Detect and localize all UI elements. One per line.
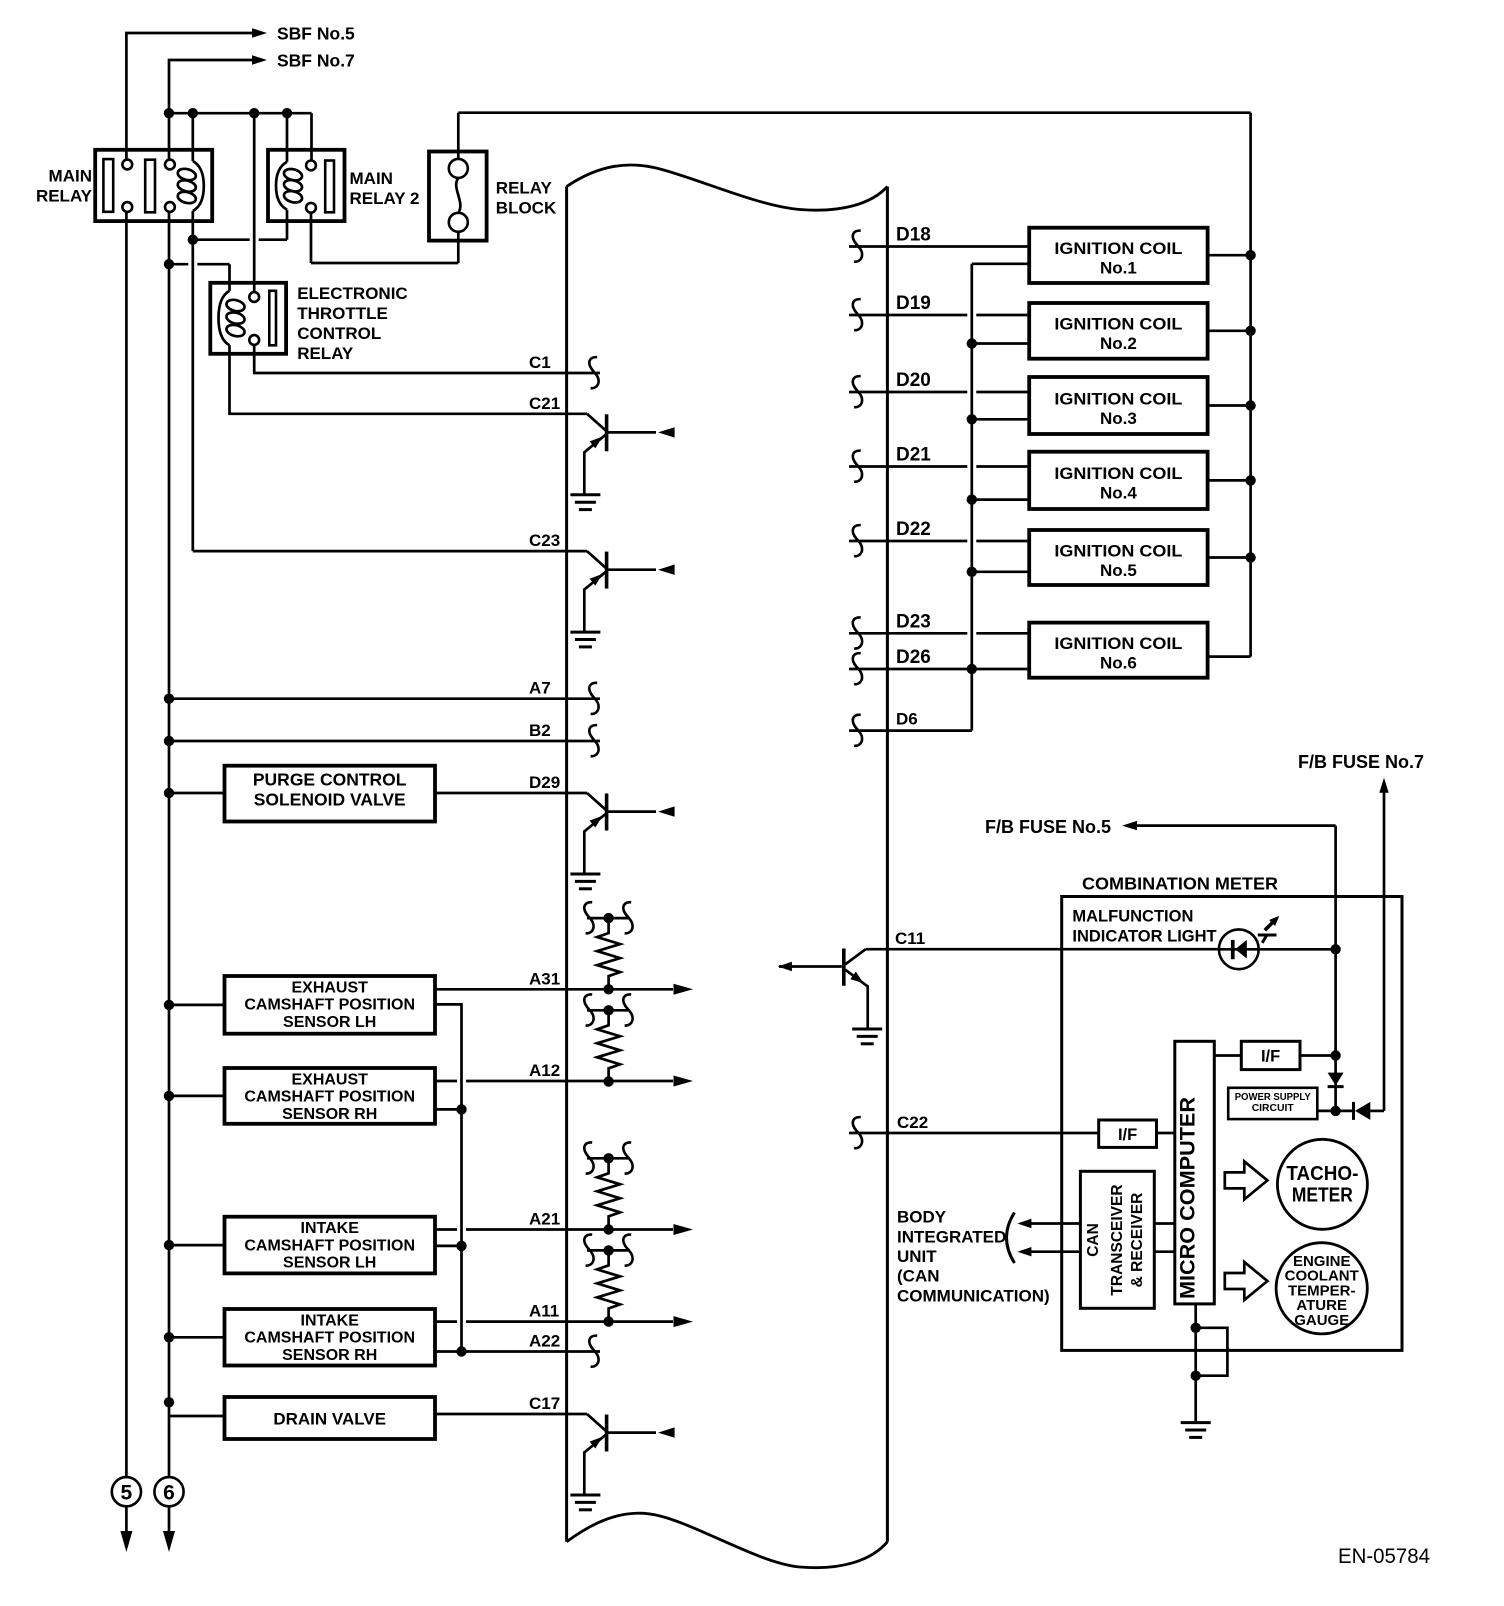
- wire A12 wire (with crossover gaps): [435, 1080, 457, 1083]
- wire micro to I/F1: [1214, 1054, 1241, 1057]
- transistor C11 driver: [779, 949, 1219, 1030]
- arrowhead to SBF No.7: [252, 55, 267, 64]
- node main line / intake LH sensor: [164, 1240, 174, 1250]
- bracket paren to body integrated unit: [1007, 1213, 1015, 1264]
- svg-text:RELAY: RELAY: [36, 187, 93, 206]
- component INTAKE CAMSHAFT POSITION SENSOR LH: [225, 1217, 436, 1274]
- pin terminal MAIN RELAY 2 30: [306, 161, 316, 171]
- connector squiggle A7: [589, 683, 598, 714]
- svg-text:MAIN: MAIN: [49, 167, 92, 186]
- wire to diode D2: [1336, 1110, 1352, 1113]
- svg-text:D29: D29: [529, 773, 560, 792]
- ignition coil No.1 box: [1029, 228, 1207, 283]
- wire C17 wire: [435, 1413, 587, 1416]
- node common bus / coil No.3: [967, 414, 977, 424]
- svg-text:GAUGE: GAUGE: [1294, 1312, 1349, 1329]
- wire power circuit to junction: [1317, 1110, 1335, 1113]
- wire A31 pull-up stub (with crossover gaps): [587, 917, 630, 920]
- svg-text:IGNITION COIL: IGNITION COIL: [1054, 315, 1182, 334]
- node main line / exhaust LH sensor: [164, 1000, 174, 1010]
- svg-text:No.3: No.3: [1100, 409, 1137, 428]
- wire A11 wire (with crossover gaps): [435, 1320, 457, 1323]
- svg-text:& RECEIVER: & RECEIVER: [1129, 1193, 1146, 1288]
- wire I/F1 to supply: [1300, 1054, 1336, 1057]
- wire MAIN RELAY coil feed: [191, 113, 194, 161]
- connector squiggle D23: [853, 617, 862, 648]
- wire micro computer ground line: [1194, 1304, 1197, 1421]
- svg-text:INTEGRATED: INTEGRATED: [897, 1227, 1006, 1246]
- pin terminal MAIN RELAY 87b: [165, 202, 175, 212]
- ground C21 emitter: [570, 495, 600, 510]
- svg-text:IGNITION COIL: IGNITION COIL: [1054, 464, 1182, 483]
- wire coil No.5 supply: [1208, 556, 1251, 559]
- svg-text:SENSOR RH: SENSOR RH: [282, 1347, 377, 1364]
- wire coil junction row (with crossover gaps): [193, 238, 250, 241]
- svg-text:MAIN: MAIN: [350, 169, 393, 188]
- svg-text:BLOCK: BLOCK: [496, 199, 557, 218]
- wire A12 pull-up stub (with crossover gaps): [587, 1009, 630, 1012]
- arrowhead A12 into ECM: [674, 1076, 694, 1087]
- contact blade ETC relay: [269, 291, 276, 346]
- node bus A / MAIN RELAY 2 coil: [282, 108, 292, 118]
- svg-text:RELAY: RELAY: [297, 344, 354, 363]
- inductor coil ETC relay coil: [219, 291, 246, 346]
- POWER SUPPLY CIRCUIT box: [1228, 1088, 1317, 1119]
- wire ETC coil feed row (with crossover gaps): [169, 263, 188, 266]
- wire CAN bus out 2: [1031, 1250, 1080, 1253]
- node bus A / ETC relay contact: [249, 108, 259, 118]
- arrowhead C21 emitter arrow: [590, 433, 606, 448]
- node A21 / resistor: [603, 1224, 613, 1234]
- ignition coil No.3 box: [1029, 377, 1207, 434]
- ignition coil No.6 box: [1029, 623, 1207, 678]
- node A11 stub: [603, 1245, 613, 1255]
- svg-text:COMBINATION METER: COMBINATION METER: [1082, 874, 1278, 894]
- svg-text:COMMUNICATION): COMMUNICATION): [897, 1286, 1050, 1305]
- wire D18 wire (with crossover gaps): [849, 245, 1029, 248]
- node supply bus / coil No.2: [1245, 326, 1255, 336]
- wire D26 wire (with crossover gaps): [849, 668, 1029, 671]
- svg-text:6: 6: [163, 1481, 175, 1504]
- svg-text:BODY: BODY: [897, 1208, 947, 1227]
- svg-text:No.4: No.4: [1100, 484, 1137, 503]
- svg-text:MICRO COMPUTER: MICRO COMPUTER: [1177, 1097, 1200, 1299]
- connector squiggle D21: [853, 451, 862, 482]
- connector squiggle stub A12 right: [623, 994, 632, 1025]
- wire A31 wire: [435, 988, 673, 991]
- wire A21 wire (with crossover gaps): [435, 1228, 457, 1231]
- wire SBF No.7 feed: [169, 60, 252, 160]
- relay MAIN RELAY 2 body: [268, 150, 345, 221]
- connector squiggle D26: [853, 653, 862, 684]
- svg-text:INTAKE: INTAKE: [301, 1312, 360, 1329]
- wire main line to connector 5: [125, 212, 128, 1477]
- MICRO COMPUTER box: [1175, 1041, 1215, 1304]
- ECM connector body outline (torn-edge box): [567, 165, 888, 210]
- svg-text:D26: D26: [896, 647, 931, 668]
- svg-text:A31: A31: [529, 969, 560, 988]
- wire MIL supply line: [1334, 826, 1337, 1111]
- node common bus / coil No.5: [967, 567, 977, 577]
- node bus A / MAIN RELAY coil: [188, 108, 198, 118]
- wire main line to connector 6: [168, 212, 171, 1477]
- svg-text:No.1: No.1: [1100, 259, 1137, 278]
- svg-text:SENSOR RH: SENSOR RH: [282, 1106, 377, 1123]
- wire intake LH to common: [435, 1245, 462, 1248]
- svg-text:CAN: CAN: [1085, 1223, 1102, 1257]
- wire coil No.2 supply: [1208, 329, 1251, 332]
- node main line / purge valve: [164, 788, 174, 798]
- arrowhead CAN to body unit 2: [1017, 1247, 1031, 1256]
- node common bus / D26: [967, 664, 977, 674]
- svg-text:No.2: No.2: [1100, 334, 1137, 353]
- node main line / B2: [164, 736, 174, 746]
- svg-text:CIRCUIT: CIRCUIT: [1252, 1102, 1295, 1114]
- svg-text:DRAIN VALVE: DRAIN VALVE: [273, 1410, 386, 1429]
- wire C1 wire: [254, 345, 600, 373]
- svg-text:TRANSCEIVER: TRANSCEIVER: [1109, 1184, 1126, 1295]
- svg-text:CAMSHAFT POSITION: CAMSHAFT POSITION: [244, 1237, 415, 1254]
- wire MAIN RELAY coil to junction: [191, 211, 194, 240]
- svg-text:SBF No.7: SBF No.7: [277, 51, 355, 71]
- connector squiggle D22: [853, 525, 862, 556]
- node supply / I/F1: [1330, 1050, 1340, 1060]
- wire coil No.5 trigger: [972, 570, 1029, 573]
- svg-text:No.6: No.6: [1100, 653, 1137, 672]
- svg-text:MALFUNCTION: MALFUNCTION: [1072, 907, 1193, 925]
- wire coil No.1 trigger: [972, 262, 1029, 265]
- wire A21 pull-up stub (with crossover gaps): [587, 1157, 630, 1160]
- component PURGE CONTROL SOLENOID VALVE: [225, 766, 436, 822]
- connector squiggle D18: [853, 231, 862, 262]
- svg-text:D19: D19: [896, 293, 931, 314]
- node main line / A7: [164, 694, 174, 704]
- arrowhead to F/B FUSE No.7: [1379, 778, 1388, 793]
- svg-text:A11: A11: [529, 1302, 559, 1321]
- wire connector 6 tail: [168, 1506, 171, 1546]
- svg-text:IGNITION COIL: IGNITION COIL: [1054, 634, 1182, 653]
- node A11 / resistor: [603, 1316, 613, 1326]
- svg-text:D20: D20: [896, 370, 931, 391]
- pin terminal MAIN RELAY 30: [122, 160, 132, 170]
- node circled connector 5: [112, 1477, 141, 1506]
- connector squiggle A22: [589, 1336, 598, 1367]
- inductor coil MAIN RELAY 2 coil: [276, 162, 303, 210]
- arrowhead C17 emitter arrow: [590, 1433, 606, 1448]
- wire intake RH supply: [169, 1336, 225, 1339]
- svg-text:B2: B2: [529, 721, 551, 740]
- contact blade MAIN RELAY 1: [103, 159, 113, 212]
- wire purge valve supply: [169, 792, 225, 795]
- indicator block arrow to coolant gauge: [1225, 1262, 1268, 1300]
- fuse element RELAY BLOCK: [456, 178, 460, 213]
- wire D6 wire: [849, 729, 972, 732]
- arrowhead A31 into ECM: [674, 984, 694, 995]
- svg-text:D23: D23: [896, 611, 931, 632]
- connector squiggle stub A21 right: [623, 1142, 632, 1173]
- ground C17 emitter: [570, 1495, 600, 1510]
- node A12 stub: [603, 1005, 613, 1015]
- arrowhead C11 base arrow: [778, 962, 792, 972]
- wire B2 wire: [169, 740, 600, 743]
- wire D19 wire (with crossover gaps): [849, 314, 967, 317]
- arrowhead C11 emitter arrow: [850, 972, 866, 987]
- engine coolant temperature gauge circle: [1276, 1243, 1367, 1334]
- wire CAN bus out 1: [1031, 1222, 1080, 1225]
- light emission arrow on LED: [1258, 921, 1277, 943]
- svg-text:THROTTLE: THROTTLE: [297, 304, 388, 323]
- svg-text:D6: D6: [896, 710, 918, 729]
- component INTAKE CAMSHAFT POSITION SENSOR RH: [225, 1309, 436, 1366]
- diode D2 (from F/B fuse No.7, pointing left): [1354, 1102, 1371, 1120]
- svg-text:METER: METER: [1292, 1185, 1353, 1207]
- arrowhead C17 collector arrow: [658, 1427, 675, 1437]
- svg-text:F/B FUSE No.7: F/B FUSE No.7: [1298, 752, 1424, 772]
- svg-text:EN-05784: EN-05784: [1338, 1545, 1430, 1568]
- LED malfunction indicator light: [1219, 929, 1259, 969]
- arrowhead D29 emitter arrow: [590, 812, 606, 827]
- svg-text:C23: C23: [529, 531, 560, 550]
- arrowhead D29 collector arrow: [658, 806, 675, 816]
- resistor A31 pull-up: [597, 918, 620, 989]
- ignition coil No.2 box: [1029, 303, 1207, 359]
- node circled connector 6: [154, 1477, 183, 1506]
- wire bus A drop to MAIN RELAY 2 contact: [310, 113, 313, 160]
- arrowhead C23 emitter arrow: [590, 570, 606, 585]
- ground C11 emitter: [852, 1029, 882, 1044]
- connector squiggle stub A21 left: [584, 1142, 593, 1173]
- arrowhead connector 5 down: [120, 1531, 132, 1552]
- wire drain valve supply: [169, 1415, 225, 1418]
- node A12 / resistor: [603, 1076, 613, 1086]
- svg-text:F/B FUSE No.5: F/B FUSE No.5: [985, 817, 1111, 837]
- node common bus / coil No.2: [967, 338, 977, 348]
- svg-text:RELAY 2: RELAY 2: [350, 189, 420, 208]
- connector squiggle stub A31 left: [584, 902, 593, 933]
- wire CAN to micro 1: [1154, 1222, 1175, 1225]
- connector squiggle D20: [853, 376, 862, 407]
- svg-text:RELAY: RELAY: [496, 179, 553, 198]
- relay ELECTRONIC THROTTLE CONTROL RELAY body: [210, 283, 286, 354]
- ignition coil No.4 box: [1029, 452, 1207, 509]
- svg-text:CONTROL: CONTROL: [297, 324, 381, 343]
- wire MAIN RELAY 2 coil to junction row: [286, 210, 289, 240]
- node supply bus / coil No.1: [1245, 250, 1255, 260]
- wire coil No.3 trigger: [972, 418, 1029, 421]
- svg-text:TACHO-: TACHO-: [1286, 1163, 1358, 1185]
- wire power bus segment B: [458, 111, 1250, 114]
- svg-text:D21: D21: [896, 445, 931, 466]
- node supply / power circuit: [1330, 1106, 1340, 1116]
- wire ignition coil supply bus: [1249, 113, 1252, 657]
- node supply bus / coil No.3: [1245, 400, 1255, 410]
- wire ETC relay contact feed: [253, 113, 256, 292]
- svg-text:A7: A7: [529, 679, 551, 698]
- svg-text:C1: C1: [529, 353, 551, 372]
- svg-text:A22: A22: [529, 1332, 560, 1351]
- pin terminal RELAY BLOCK bottom: [449, 213, 468, 232]
- svg-text:C17: C17: [529, 1394, 560, 1413]
- pin terminal MAIN RELAY 87: [122, 202, 132, 212]
- node ground jog bottom: [1191, 1371, 1201, 1381]
- wire C21 wire: [230, 345, 588, 414]
- transistor C23 driver: [584, 551, 656, 632]
- wire ignition coil common bus: [970, 264, 973, 731]
- node supply bus / coil No.4: [1245, 475, 1255, 485]
- diode D1 (MIL supply, pointing down): [1328, 1073, 1344, 1087]
- svg-text:IGNITION COIL: IGNITION COIL: [1054, 239, 1182, 258]
- node common / A22: [456, 1346, 466, 1356]
- connector squiggle stub A12 left: [584, 994, 593, 1025]
- svg-text:SBF No.5: SBF No.5: [277, 24, 355, 44]
- svg-text:I/F: I/F: [1118, 1126, 1137, 1144]
- svg-text:A21: A21: [529, 1210, 560, 1229]
- arrowhead to F/B FUSE No.5: [1122, 821, 1137, 830]
- connector squiggle stub A31 right: [623, 902, 632, 933]
- connector squiggle stub A11 right: [623, 1235, 632, 1266]
- svg-text:C21: C21: [529, 394, 560, 413]
- wire intake LH supply: [169, 1244, 225, 1247]
- arrowhead LED light arrow: [1269, 913, 1282, 926]
- COMBINATION METER body: [1062, 897, 1402, 1351]
- svg-text:EXHAUST: EXHAUST: [291, 1071, 368, 1088]
- svg-text:IGNITION COIL: IGNITION COIL: [1054, 389, 1182, 408]
- wire coil No.6 supply: [1208, 655, 1251, 658]
- node main line / intake RH sensor: [164, 1332, 174, 1342]
- wire A22 wire: [435, 1350, 600, 1353]
- node common / exhaust RH: [456, 1104, 466, 1114]
- wire coil No.1 supply: [1208, 254, 1251, 257]
- component EXHAUST CAMSHAFT POSITION SENSOR LH: [225, 976, 436, 1034]
- wire RELAY BLOCK to bus B: [457, 113, 460, 159]
- svg-text:SOLENOID VALVE: SOLENOID VALVE: [254, 790, 406, 810]
- wire connector 5 tail: [125, 1506, 128, 1546]
- component DRAIN VALVE: [225, 1397, 436, 1439]
- wire coil No.3 supply: [1208, 404, 1251, 407]
- inductor coil MAIN RELAY coil: [177, 161, 204, 211]
- resistor A12 pull-up: [597, 1010, 620, 1081]
- wire exhaust LH supply: [169, 1004, 225, 1007]
- node ground jog top: [1191, 1323, 1201, 1333]
- wire MAIN RELAY 2 contact to relay block: [310, 213, 313, 263]
- wire power bus segment A: [169, 112, 312, 115]
- svg-text:D18: D18: [896, 225, 931, 246]
- arrowhead connector 6 down: [163, 1531, 175, 1552]
- svg-text:CAMSHAFT POSITION: CAMSHAFT POSITION: [244, 1330, 415, 1347]
- relay block body: [429, 152, 487, 241]
- pin terminal RELAY BLOCK top: [449, 159, 468, 178]
- wire CAN to micro 2: [1154, 1250, 1175, 1253]
- wire coil No.4 supply: [1208, 479, 1251, 482]
- svg-text:INDICATOR LIGHT: INDICATOR LIGHT: [1072, 928, 1216, 946]
- node main line / ETC coil feed: [164, 259, 174, 269]
- svg-text:UNIT: UNIT: [897, 1247, 937, 1266]
- svg-text:A12: A12: [529, 1061, 560, 1080]
- svg-text:(CAN: (CAN: [897, 1267, 940, 1286]
- wire F/B FUSE No.5 feed: [1130, 824, 1336, 827]
- svg-text:ELECTRONIC: ELECTRONIC: [297, 284, 408, 303]
- ignition coil No.5 box: [1029, 530, 1207, 585]
- pin terminal MAIN RELAY 2 87: [306, 203, 316, 213]
- node A31 / resistor: [603, 984, 613, 994]
- arrowhead CAN to body unit 1: [1017, 1219, 1031, 1228]
- node bus A / SBF7 line: [164, 108, 174, 118]
- svg-text:IGNITION COIL: IGNITION COIL: [1054, 541, 1182, 560]
- svg-text:EXHAUST: EXHAUST: [291, 979, 368, 996]
- wire D23 wire (with crossover gaps): [849, 632, 967, 635]
- node supply bus / coil No.5: [1245, 552, 1255, 562]
- svg-text:SENSOR LH: SENSOR LH: [283, 1255, 376, 1272]
- wire D21 wire (with crossover gaps): [849, 465, 967, 468]
- svg-text:PURGE CONTROL: PURGE CONTROL: [253, 770, 407, 790]
- wire exhaust RH supply: [169, 1095, 225, 1098]
- connector squiggle C22: [853, 1117, 862, 1148]
- pin terminal MAIN RELAY 30b: [165, 160, 175, 170]
- wire C23 wire: [193, 550, 587, 553]
- svg-text:CAMSHAFT POSITION: CAMSHAFT POSITION: [244, 1089, 415, 1106]
- connector squiggle D19: [853, 299, 862, 330]
- svg-text:D22: D22: [896, 519, 931, 540]
- wire RELAY BLOCK to MAIN RELAY 2: [457, 232, 460, 263]
- arrowhead C23 collector arrow: [658, 565, 675, 575]
- node common / intake LH: [456, 1241, 466, 1251]
- arrowhead A21 into ECM: [674, 1224, 694, 1235]
- resistor A21 pull-up: [597, 1158, 620, 1229]
- svg-text:C22: C22: [897, 1113, 928, 1132]
- contact blade MAIN RELAY 2: [325, 161, 334, 213]
- wire C22 wire: [849, 1132, 1099, 1135]
- wire coil No.4 trigger: [972, 498, 1029, 501]
- wire A7 wire: [169, 697, 600, 700]
- wire to RELAY BLOCK bottom: [311, 262, 458, 265]
- I/F interface box 1: [1241, 1041, 1300, 1069]
- wire F/B FUSE No.7 feed: [1383, 792, 1386, 1111]
- node A31 stub: [603, 913, 613, 923]
- transistor C17 driver: [584, 1414, 656, 1495]
- contact blade MAIN RELAY 2: [145, 160, 155, 213]
- wire D29 wire: [435, 792, 587, 795]
- svg-text:I/F: I/F: [1261, 1048, 1280, 1066]
- node MAIN RELAY coil / C23 line: [188, 235, 198, 245]
- component EXHAUST CAMSHAFT POSITION SENSOR RH: [225, 1068, 436, 1124]
- svg-text:SENSOR LH: SENSOR LH: [283, 1014, 376, 1031]
- wire SBF No.5 feed: [126, 33, 252, 160]
- pin terminal ETC relay 87: [249, 335, 259, 345]
- wire D20 wire (with crossover gaps): [849, 391, 967, 394]
- relay MAIN RELAY body: [95, 150, 212, 221]
- transistor C21 driver: [584, 414, 656, 495]
- pin terminal ETC relay 30: [249, 292, 259, 302]
- svg-text:CAMSHAFT POSITION: CAMSHAFT POSITION: [244, 997, 415, 1014]
- node MIL supply / LED: [1330, 944, 1340, 954]
- CAN TRANSCEIVER &amp; RECEIVER box: [1080, 1171, 1154, 1308]
- svg-text:No.5: No.5: [1100, 561, 1137, 580]
- wire A11 pull-up stub (with crossover gaps): [587, 1249, 630, 1252]
- connector squiggle C1: [589, 357, 598, 388]
- ground C23 emitter: [570, 632, 600, 647]
- tachometer gauge circle: [1277, 1139, 1367, 1229]
- wire LED to supply: [1259, 948, 1336, 951]
- wire D22 wire (with crossover gaps): [849, 540, 967, 543]
- indicator block arrow to tachometer: [1225, 1161, 1268, 1199]
- wire C23 feed drop: [191, 240, 194, 551]
- I/F interface box 2: [1099, 1120, 1157, 1147]
- wire coil No.2 trigger: [972, 342, 1029, 345]
- wire sensor common line: [435, 1004, 462, 1351]
- arrowhead A11 into ECM: [674, 1316, 694, 1327]
- wire ground jog loop: [1196, 1328, 1228, 1376]
- transistor D29 driver: [584, 793, 656, 874]
